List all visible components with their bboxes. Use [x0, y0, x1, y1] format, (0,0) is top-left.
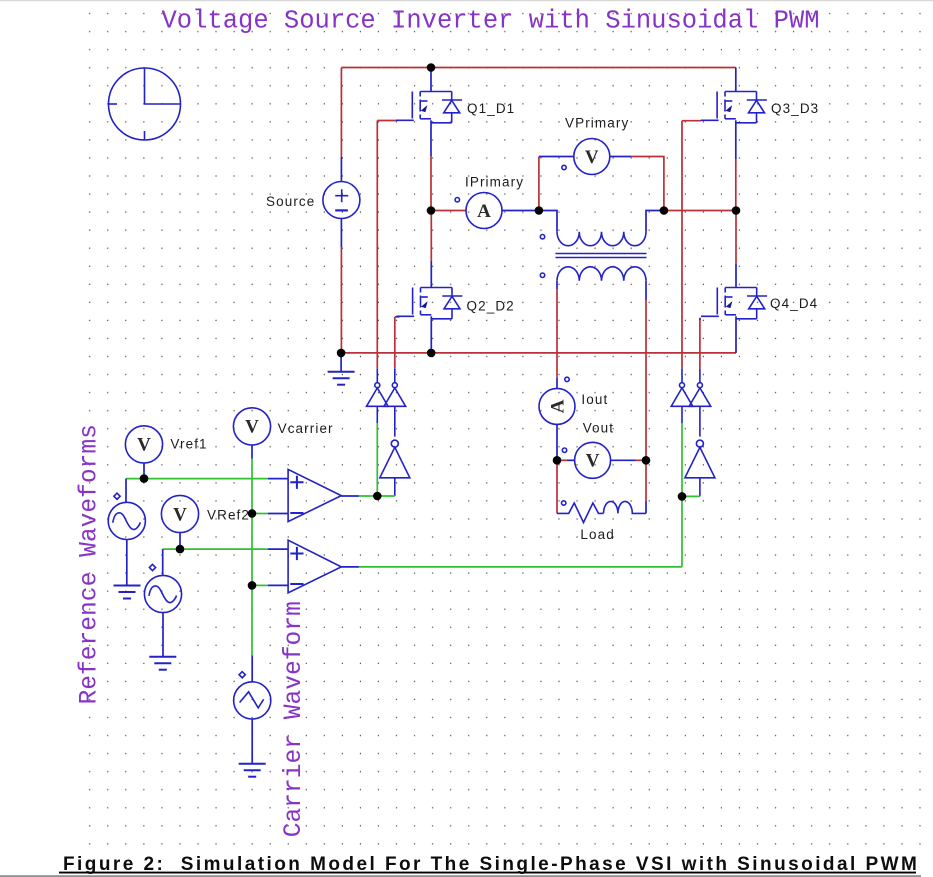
svg-text:Iout: Iout — [581, 392, 608, 407]
transistor Q4 — [701, 288, 767, 319]
wire gating2 to inverter1 blue — [394, 406, 396, 436]
transistor Q3 — [701, 92, 767, 123]
wire Vout left lead blue — [567, 459, 575, 461]
wire Q4 gate corner blue — [699, 318, 701, 320]
junction node carrier comp2 — [248, 581, 257, 590]
wire secondary right lead red — [645, 300, 647, 460]
gating block G4 — [689, 383, 711, 407]
wire inverter1 input blue — [394, 478, 396, 496]
voltage source Source — [323, 182, 360, 219]
wire carrier source bottom lead — [251, 719, 253, 764]
op-amp comparator 2 — [288, 540, 341, 593]
svg-text:Q1_D1: Q1_D1 — [467, 101, 515, 116]
svg-text:VPrimary: VPrimary — [565, 116, 629, 131]
wire secondary left lead red — [556, 289, 558, 378]
wire Q1 drain — [430, 68, 432, 92]
wire comp1 output green — [359, 495, 395, 497]
junction node T2 — [660, 206, 669, 215]
wire Q2 gate red — [395, 317, 400, 368]
inverter left — [380, 440, 410, 478]
svg-text:Source: Source — [266, 194, 315, 209]
ammeter Iout — [539, 377, 575, 424]
wire IPrimary to node T1 blue — [502, 210, 539, 212]
wire source bottom lead red — [340, 247, 342, 353]
junction node midrail right — [732, 206, 741, 215]
svg-text:Voltage Source Inverter with S: Voltage Source Inverter with Sinusoidal … — [162, 7, 820, 36]
sine source VRef2 — [144, 564, 181, 612]
wire carrier source top lead blue — [251, 655, 253, 682]
wire Q1 gate red — [377, 121, 396, 369]
wire gating1 out blue — [376, 406, 378, 423]
wire Q3 source red — [735, 159, 737, 211]
junction node Q2 source bus — [427, 349, 436, 358]
svg-text:Vref1: Vref1 — [170, 437, 207, 452]
inverter right — [685, 440, 715, 478]
wire Q2 source — [430, 316, 432, 353]
wire Q4 drain red — [735, 211, 737, 264]
wire Q2 drain red — [430, 211, 432, 262]
wire Q4 drain blue — [735, 263, 737, 287]
wire node T2 to primary right blue — [646, 211, 664, 232]
wire Vref1 net green — [126, 478, 268, 480]
junction node top bus — [427, 63, 436, 72]
voltmeter VPrimary — [562, 139, 610, 175]
junction node VRef2 — [176, 545, 185, 554]
wire Vout right lead blue — [611, 459, 636, 461]
wire Vref1 meter stub — [143, 463, 145, 479]
wire sine1 top lead — [125, 479, 127, 503]
wire ground1 stub — [340, 353, 342, 371]
wire top red bus — [341, 67, 735, 69]
wire node G2 to inverter2 green — [682, 495, 700, 497]
wire comp2 output green long — [359, 496, 682, 567]
wire carrier net vertical green — [251, 459, 253, 656]
svg-text:VRef2: VRef2 — [207, 508, 250, 523]
ground ref2 — [149, 657, 176, 670]
wire Q3 gate red — [682, 121, 701, 369]
op-amp comparator 1 — [288, 469, 341, 521]
wire gating1 out green — [376, 423, 378, 496]
wire sine2 bottom lead — [162, 612, 164, 656]
wire load right blue — [645, 501, 647, 513]
wire inverter2 input blue — [699, 478, 701, 497]
svg-text:V: V — [586, 451, 600, 472]
wire load right red — [645, 460, 647, 501]
load RL — [557, 501, 646, 523]
transformer primary coil — [540, 232, 646, 246]
ammeter IPrimary — [455, 193, 502, 229]
wire VPrimary left lead blue — [539, 156, 574, 158]
junction node Vout left — [553, 456, 562, 465]
triangle source carrier — [234, 672, 271, 719]
wire gate3 stub blue — [681, 368, 683, 382]
voltmeter Vout — [562, 442, 610, 478]
wire comp1 output blue — [341, 495, 359, 497]
wire VRef2 meter stub — [179, 533, 181, 550]
gating block G2 — [384, 383, 406, 407]
wire source top lead red — [340, 68, 342, 158]
svg-text:Q3_D3: Q3_D3 — [771, 101, 819, 116]
wire midrail red to IPrimary — [431, 210, 466, 212]
wire Vcarrier meter stub — [251, 445, 253, 459]
junction node midrail left — [427, 206, 436, 215]
wire Q1 source blue — [430, 120, 432, 156]
junction node ground bus — [337, 349, 346, 358]
wire sine2 top lead — [162, 549, 164, 576]
wire load left red — [556, 460, 558, 513]
wire gate2 stub blue — [394, 368, 396, 382]
svg-text:V: V — [173, 504, 187, 525]
svg-text:A: A — [477, 201, 491, 222]
svg-text:Vcarrier: Vcarrier — [278, 421, 334, 436]
svg-text:Carrier Waveform: Carrier Waveform — [281, 601, 308, 837]
junction node carrier comp1 — [248, 509, 257, 518]
svg-text:Load: Load — [580, 527, 614, 542]
wire Q2 drain blue — [430, 261, 432, 288]
junction node Vref1 — [140, 474, 149, 483]
junction node T1 — [535, 206, 544, 215]
junction node Vout right — [642, 456, 651, 465]
voltmeter Vcarrier — [233, 408, 270, 445]
wire comp1 plus lead blue — [268, 478, 288, 480]
svg-text:IPrimary: IPrimary — [465, 175, 524, 190]
wire comp2 output blue — [341, 566, 359, 568]
wire Vout right lead red — [636, 459, 647, 461]
gating block G3 — [671, 383, 693, 407]
sine source Vref1 — [108, 493, 145, 539]
wire Q4 gate red — [699, 319, 701, 369]
wire VPrimary right lead red — [631, 157, 664, 211]
wire source bottom lead blue — [340, 219, 342, 248]
wire Iout bottom lead — [556, 424, 558, 460]
junction node comp1 out — [373, 492, 382, 501]
ground ref1 — [114, 586, 141, 599]
wire Q4 source — [735, 316, 737, 353]
transistor Q2 — [396, 288, 462, 319]
wire source top lead blue — [340, 157, 342, 182]
transformer core — [556, 254, 647, 258]
wire gating3 out blue — [681, 406, 683, 423]
wire bottom red bus — [341, 352, 736, 354]
wire gating3 out green — [681, 423, 683, 496]
wire gating4 to inverter2 blue — [699, 406, 701, 436]
wire secondary left lead blue — [556, 281, 558, 289]
bottom border line — [0, 875, 921, 877]
svg-text:V: V — [245, 417, 259, 438]
svg-text:Vout: Vout — [583, 421, 614, 436]
wire comp2 minus lead blue — [268, 584, 288, 586]
voltmeter VRef2 — [161, 495, 198, 532]
wire Iout top lead blue — [556, 378, 558, 389]
wire comp1 minus green — [252, 513, 268, 515]
wire sine1 bottom lead — [126, 539, 128, 585]
wire comp2 plus lead blue — [268, 548, 288, 550]
clock symbol — [109, 68, 181, 140]
svg-text:Reference Waveforms: Reference Waveforms — [77, 424, 104, 704]
wire gate4 stub blue — [699, 368, 701, 382]
wire node T1 to primary left — [539, 211, 557, 232]
wire comp1 minus lead blue — [268, 513, 288, 515]
svg-text:Q4_D4: Q4_D4 — [770, 296, 818, 311]
wire Q1 source red to midrail — [430, 156, 432, 211]
wire VPrimary left riser red — [538, 157, 540, 211]
junction node comp2 out — [678, 492, 687, 501]
svg-text:A: A — [547, 399, 568, 413]
wire Q3 drain — [735, 68, 737, 92]
wire VPrimary right lead blue — [610, 156, 631, 158]
transistor Q1 — [396, 92, 462, 123]
wire Vout left lead red — [557, 459, 567, 461]
wire secondary right lead blue — [645, 281, 647, 300]
ground main — [328, 372, 355, 385]
transformer secondary coil — [540, 267, 646, 281]
caption underline — [59, 872, 916, 874]
wire Q3 source blue — [735, 120, 737, 159]
voltmeter Vref1 — [125, 426, 162, 463]
wire comp2 minus green — [252, 584, 268, 586]
gating block G1 — [367, 383, 389, 407]
wire midrail right red — [664, 210, 736, 212]
svg-text:V: V — [585, 147, 599, 168]
wire VRef2 net green — [163, 548, 268, 550]
wire gate1 stub blue — [376, 368, 378, 382]
ground carrier — [239, 764, 266, 777]
svg-text:Q2_D2: Q2_D2 — [467, 299, 515, 314]
svg-text:V: V — [137, 435, 151, 456]
